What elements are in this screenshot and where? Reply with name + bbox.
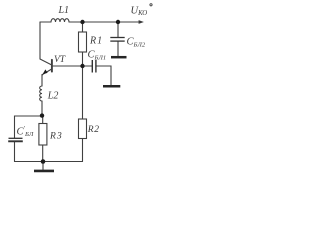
node dot C below L2 [40,113,44,117]
svg-text:VT: VT [54,55,66,65]
svg-text:CБЛ1: CБЛ1 [88,50,107,62]
capacitor C bl1 plates [92,60,96,73]
ground under C bl2 [111,56,127,59]
resistor R2 [79,119,87,139]
ground under C bl1 [103,85,120,88]
transistor VT emitter lead [42,69,52,76]
wire L2 to node C [41,101,43,116]
ground bottom [34,170,54,173]
capacitor C' bl plates [8,138,23,141]
node dot top rail R1 [80,20,84,24]
wire base lead to node B [53,65,83,67]
label Uko degree mark [150,4,152,6]
wire R2 bottom lead to bottom rail [82,139,84,162]
wire emitter vertical to L2 [41,75,43,86]
wire node B to capacitor C bl1 [83,65,93,67]
wire R1 bottom to node B [82,52,84,66]
wire R1 top lead [82,22,84,32]
svg-text:R2: R2 [87,125,100,135]
svg-text:C′БЛ: C′БЛ [17,125,34,138]
transistor Q VT collector lead [40,59,52,65]
transistor VT base bar [51,60,53,72]
output arrowhead [139,20,144,24]
svg-text:R1: R1 [89,35,103,46]
svg-text:CБЛ2: CБЛ2 [127,37,146,49]
svg-text:R3: R3 [49,131,63,141]
capacitor C bl2 plates [110,38,124,42]
svg-text:UКО: UКО [131,5,148,17]
wire C bl2 top lead [117,22,119,37]
wire R3 top lead [42,116,44,124]
svg-text:L2: L2 [47,91,59,102]
node dot B base [80,64,84,68]
wire top rail left segment [40,21,51,23]
wire left vertical (collector drop) [39,22,41,59]
node dot top rail output [116,20,120,24]
svg-text:L1: L1 [58,5,70,16]
wire ground stub bottom [42,162,44,170]
wire R3 bottom lead [42,145,44,162]
wire top rail right segment [69,21,139,23]
wire C bl2 bottom lead [117,42,119,56]
wire C bl1 right to ground drop [96,66,111,85]
wire node C left branch [15,116,43,138]
inductor L2 [40,86,42,101]
node dot bottom ground [41,159,46,164]
transistor VT emitter arrow [43,69,48,74]
inductor L1 [51,19,69,22]
resistor R1 [79,32,87,52]
wire C' bottom lead [14,142,16,161]
wire bottom rail [15,161,83,163]
wire node B down to R2 [82,66,84,119]
resistor R3 [39,124,47,146]
